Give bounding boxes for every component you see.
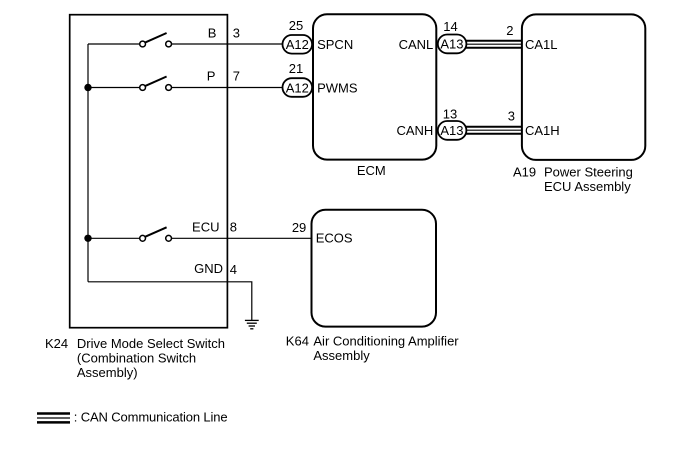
svg-text:Drive Mode Select Switch: Drive Mode Select Switch [77,336,225,351]
svg-text:CANL: CANL [399,37,434,52]
ECM box [313,14,436,159]
svg-text:Assembly): Assembly) [77,365,138,380]
wire: B row left segment [88,43,139,45]
svg-text:B: B [208,26,217,41]
svg-text:K24: K24 [45,336,68,351]
wire: B row right segment to connector A12 [172,43,283,45]
wire: P row right segment to connector A12 [172,87,283,89]
svg-text:K64: K64 [286,334,309,349]
wire: vertical bus inside K24 [87,44,89,282]
connector oval A13 pin 14 [438,35,467,54]
svg-text:A12: A12 [286,37,309,52]
air conditioning amplifier box K64 [312,210,437,327]
svg-text:CA1L: CA1L [525,37,558,52]
svg-text:13: 13 [443,107,457,122]
switch SW-P blade [145,77,166,86]
svg-text:29: 29 [292,220,306,235]
switch assembly box K24 [70,15,228,328]
svg-text:8: 8 [230,220,237,235]
wire: ECU row left segment [88,237,139,239]
svg-text:A13: A13 [440,123,463,138]
switch SW-ECU contact left [140,235,146,241]
ground symbol [245,320,259,328]
svg-text:ECU: ECU [192,220,219,235]
CAN communication line CANL (triple line) [466,41,522,48]
wire: GND row segment [88,282,252,320]
svg-text:21: 21 [289,61,303,76]
svg-text:3: 3 [233,26,240,41]
svg-text:A12: A12 [286,80,309,95]
svg-text:P: P [207,69,216,84]
svg-text:7: 7 [233,69,240,84]
switch SW-B contact right [166,41,172,47]
node: junction dot P row [84,84,91,91]
svg-text:A19: A19 [513,165,536,180]
svg-text:(Combination Switch: (Combination Switch [77,351,196,366]
svg-text:ECOS: ECOS [316,230,353,245]
svg-text:ECM: ECM [357,163,386,178]
svg-text:CA1H: CA1H [525,123,560,138]
svg-text:GND: GND [194,261,223,276]
svg-text:14: 14 [443,19,457,34]
switch SW-P contact left [140,85,146,91]
power steering ECU box A19 [522,14,645,160]
switch SW-ECU contact right [166,235,172,241]
svg-text:PWMS: PWMS [317,80,358,95]
switch SW-B blade [145,33,166,42]
switch SW-ECU blade [145,227,166,236]
legend: CAN communication line sample [37,414,70,423]
connector oval A13 pin 13 [438,121,467,140]
connector oval A12 pin 21 [283,78,313,97]
svg-text:Air Conditioning Amplifier: Air Conditioning Amplifier [313,334,459,349]
wire: ECU row segment to K64 box pin 29 [172,237,312,239]
svg-text:: CAN Communication Line: : CAN Communication Line [74,410,228,425]
svg-text:25: 25 [289,18,303,33]
svg-text:A13: A13 [440,37,463,52]
connector oval A12 pin 25 [283,35,313,54]
svg-text:SPCN: SPCN [317,37,353,52]
svg-text:ECU Assembly: ECU Assembly [544,179,631,194]
svg-text:2: 2 [506,23,513,38]
node: junction dot ECU row [84,235,91,242]
svg-text:Assembly: Assembly [313,348,370,363]
svg-text:Power Steering: Power Steering [544,165,633,180]
switch SW-P contact right [166,85,172,91]
svg-text:CANH: CANH [396,123,433,138]
svg-text:3: 3 [508,108,515,123]
CAN communication line CANH (triple line) [466,127,522,134]
switch SW-B contact left [140,41,146,47]
wire: P row left segment [88,87,139,89]
svg-text:4: 4 [230,262,237,277]
